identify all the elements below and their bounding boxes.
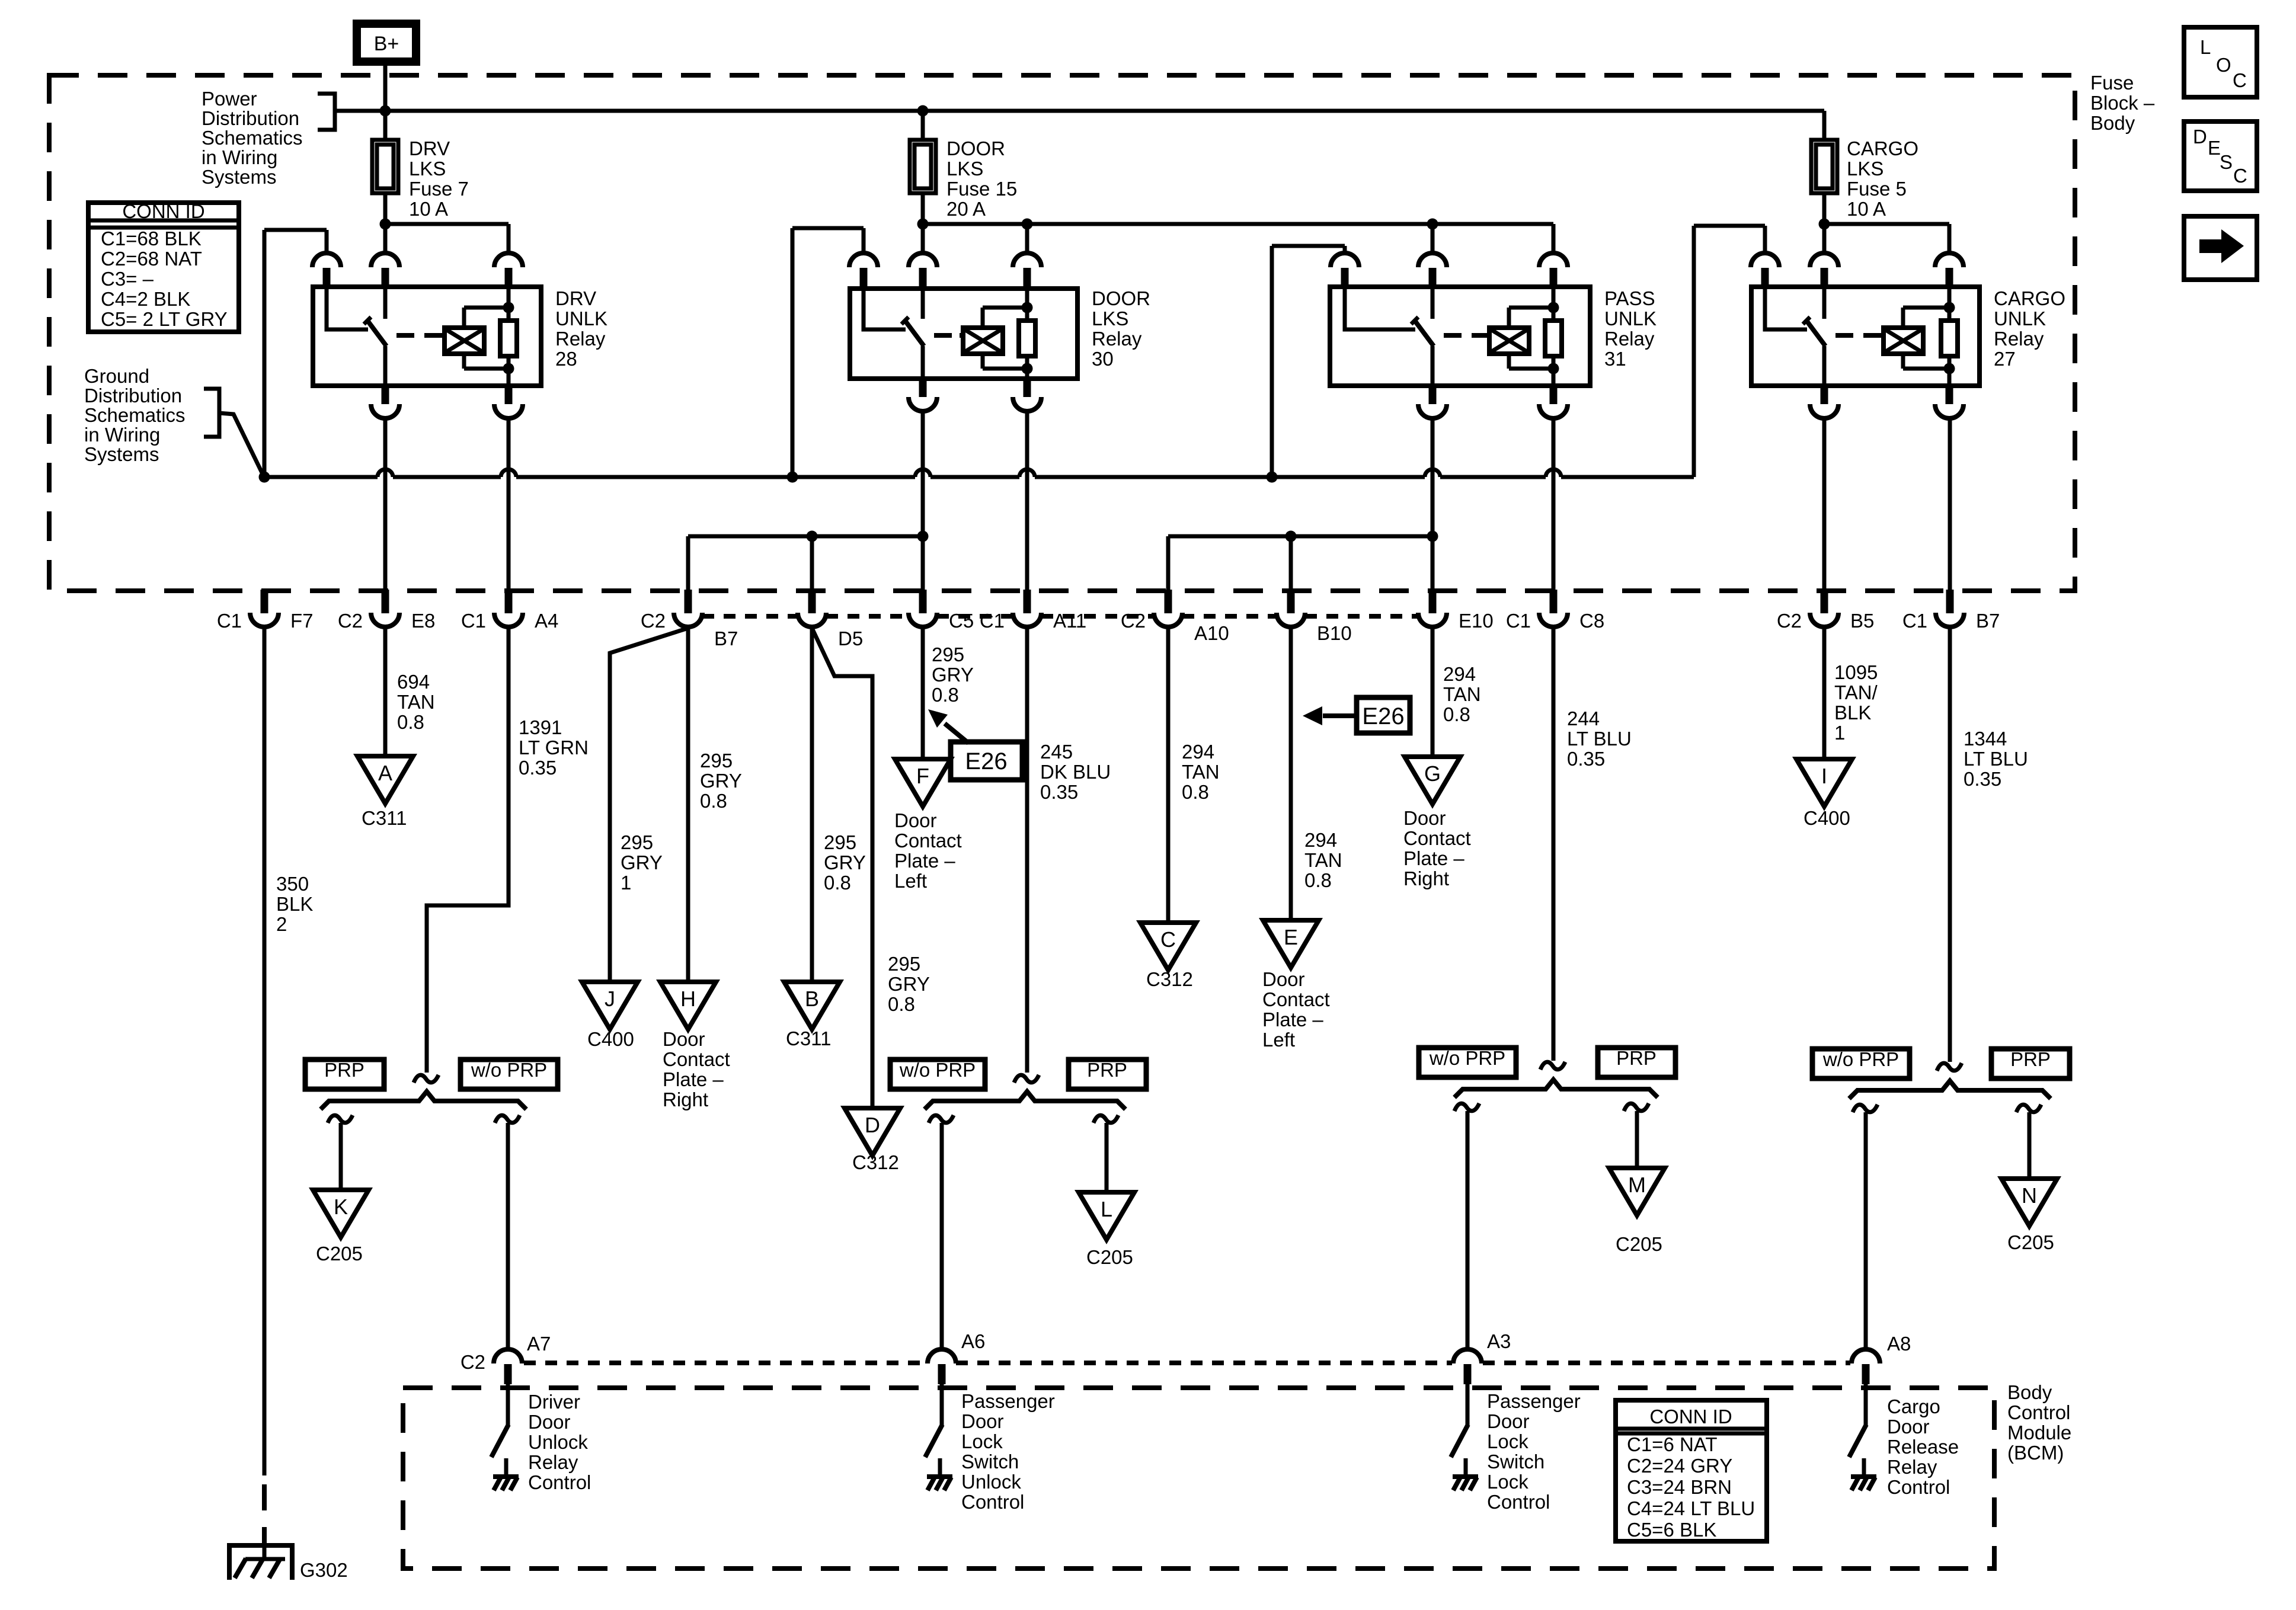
svg-text:C5=6 BLK: C5=6 BLK	[1627, 1519, 1716, 1541]
svg-text:0.8: 0.8	[1443, 703, 1470, 725]
relay K30 (DOOR LKS Relay 30) bottom pin (coil return)	[1024, 377, 1031, 397]
svg-text:Control: Control	[2007, 1401, 2070, 1423]
svg-text:0.35: 0.35	[1567, 748, 1605, 770]
svg-text:Lock: Lock	[1487, 1471, 1528, 1493]
svg-text:Relay: Relay	[555, 328, 606, 350]
wire lock-wire tie right (A10/B10/E10)	[1168, 534, 1432, 539]
connector C2-E8	[382, 590, 389, 613]
node fuse 5 output	[1819, 219, 1830, 230]
connector C2 boundary (short dashed)	[702, 614, 798, 619]
svg-text:Passenger: Passenger	[1487, 1390, 1581, 1412]
svg-text:N: N	[2022, 1183, 2037, 1208]
svg-text:Contact: Contact	[894, 830, 962, 852]
splice option brace (G4 cargo)	[1849, 1081, 2051, 1099]
svg-text:Left: Left	[894, 870, 927, 892]
svg-text:Fuse 15: Fuse 15	[946, 178, 1017, 200]
connector C1-B7 (cargo)	[1946, 590, 1954, 613]
svg-text:0.35: 0.35	[519, 757, 557, 779]
svg-text:PRP: PRP	[324, 1059, 364, 1081]
label w/o PRP (G1 drv)	[461, 1060, 558, 1089]
svg-text:(BCM): (BCM)	[2007, 1442, 2064, 1464]
node tie right / E10 wire	[1427, 531, 1438, 542]
relay K27 (CARGO UNLK Relay 27) box	[1751, 287, 1980, 386]
wire relay 31 coil return down (C1-C8)	[1552, 418, 1556, 590]
relay K27 (CARGO UNLK Relay 27) coil linkage (dashed)	[1835, 333, 1881, 338]
svg-text:C4=24 LT BLU: C4=24 LT BLU	[1627, 1497, 1755, 1519]
svg-text:C: C	[2233, 69, 2247, 91]
relay K30 (DOOR LKS Relay 30) pin 1 (top left)	[849, 253, 878, 267]
splice M	[1609, 1168, 1665, 1215]
node K28 (DRV UNLK Relay 28) coil-top junction	[503, 302, 514, 313]
node tie right / B10	[1285, 531, 1297, 542]
svg-text:Contact: Contact	[1262, 988, 1330, 1010]
svg-text:31: 31	[1604, 348, 1626, 370]
svg-text:Door: Door	[1887, 1416, 1930, 1438]
relay K28 (DRV UNLK Relay 28) coil linkage (dashed)	[396, 333, 442, 338]
svg-text:10 A: 10 A	[1847, 198, 1886, 220]
svg-text:A10: A10	[1194, 622, 1229, 644]
svg-text:M: M	[1628, 1173, 1646, 1197]
fuse block dashed boundary (Fuse Block - Body)	[49, 75, 2075, 591]
node K31 (PASS UNLK Relay 31) coil-bottom junction	[1548, 363, 1559, 375]
svg-text:E26: E26	[965, 748, 1007, 774]
relay K30 (DOOR LKS Relay 30) box	[850, 289, 1077, 379]
svg-text:Ground: Ground	[84, 365, 149, 387]
splice F	[895, 759, 951, 806]
svg-text:1: 1	[621, 872, 631, 894]
wire 295 GRY 0.8 (to B)	[810, 628, 814, 982]
switch cargo door release relay control	[1864, 1384, 1868, 1426]
switch driver door unlock relay control	[506, 1384, 510, 1426]
ground G302	[227, 1543, 295, 1548]
svg-text:Control: Control	[1887, 1476, 1950, 1498]
svg-text:Module: Module	[2007, 1422, 2071, 1443]
relay K31 (PASS UNLK Relay 31) coil linkage (dashed)	[1444, 333, 1486, 338]
svg-text:CONN ID: CONN ID	[122, 200, 204, 222]
svg-text:Left: Left	[1262, 1029, 1295, 1051]
svg-text:Relay: Relay	[528, 1451, 578, 1473]
relay K31 (PASS UNLK Relay 31) pin 1 (top left)	[1331, 253, 1359, 267]
svg-text:Driver: Driver	[528, 1391, 580, 1413]
wire relay 28 coil return down (C1-A4)	[507, 418, 511, 590]
svg-text:245: 245	[1040, 741, 1073, 763]
svg-text:Schematics: Schematics	[84, 404, 186, 426]
svg-text:Door: Door	[663, 1028, 705, 1050]
svg-text:DOOR: DOOR	[946, 137, 1005, 159]
svg-text:C400: C400	[1803, 807, 1850, 829]
svg-text:Lock: Lock	[1487, 1430, 1528, 1452]
svg-text:C400: C400	[587, 1028, 634, 1050]
relay K27 (CARGO UNLK Relay 27) pin 3 (top right)	[1935, 253, 1964, 267]
svg-text:294: 294	[1443, 663, 1476, 685]
wire 245 DK BLU 0.35	[1025, 628, 1029, 1073]
svg-text:GRY: GRY	[621, 852, 663, 873]
svg-text:Right: Right	[663, 1089, 708, 1110]
LOC reference box	[2184, 27, 2257, 97]
svg-text:C2=24 GRY: C2=24 GRY	[1627, 1455, 1732, 1477]
svg-text:PRP: PRP	[2010, 1048, 2051, 1070]
svg-text:C1: C1	[1506, 610, 1531, 632]
svg-text:CARGO: CARGO	[1847, 137, 1918, 159]
splice B	[784, 982, 840, 1029]
wire right branch (G1 drv)	[495, 1115, 520, 1123]
svg-text:C1: C1	[461, 610, 486, 632]
CONN ID table (BCM)	[1616, 1400, 1767, 1541]
relay K28 (DRV UNLK Relay 28) pin 2 (top middle)	[371, 253, 399, 267]
splice option tilde (G2 pass-unlock)	[1014, 1075, 1039, 1083]
connector E10	[1429, 590, 1437, 613]
wire 294 TAN 0.8 (to C)	[1166, 628, 1171, 923]
relay K31 (PASS UNLK Relay 31) pin 3 (top right)	[1539, 253, 1568, 267]
node tie left / C5 wire	[917, 531, 929, 542]
svg-text:Door: Door	[1487, 1410, 1530, 1432]
connector C1-C8	[1550, 590, 1558, 613]
svg-text:0.8: 0.8	[700, 790, 727, 812]
wire relay 27 switch output down (C2-B5)	[1822, 418, 1827, 590]
svg-text:GRY: GRY	[888, 973, 930, 995]
relay K28 (DRV UNLK Relay 28) resistor	[507, 287, 511, 321]
svg-text:E8: E8	[411, 610, 435, 632]
svg-text:A4: A4	[535, 610, 558, 632]
connector C1-A11	[1024, 590, 1031, 613]
svg-text:A6: A6	[961, 1330, 985, 1352]
svg-text:Control: Control	[528, 1471, 591, 1493]
svg-text:C1=68 BLK: C1=68 BLK	[101, 228, 202, 249]
svg-text:C1: C1	[1902, 610, 1927, 632]
splice L	[1079, 1192, 1134, 1240]
connector A6 (BCM)	[928, 1349, 956, 1363]
relay K28 (DRV UNLK Relay 28) bottom pin (switch output)	[382, 385, 389, 404]
svg-text:B7: B7	[714, 628, 738, 649]
wire relay 28 switch output down (C2-E8)	[383, 418, 388, 590]
svg-text:J: J	[605, 987, 615, 1011]
relay K27 (CARGO UNLK Relay 27) pin 1 (top left)	[1751, 253, 1779, 267]
svg-text:694: 694	[397, 671, 430, 693]
svg-text:in Wiring: in Wiring	[202, 146, 277, 168]
svg-text:A11: A11	[1053, 610, 1086, 632]
connector C2-B5	[1821, 590, 1828, 613]
connector D5	[808, 590, 816, 613]
svg-text:Switch: Switch	[961, 1451, 1019, 1473]
svg-text:0.8: 0.8	[888, 993, 915, 1015]
switch passenger door lock switch unlock control	[940, 1384, 944, 1426]
svg-text:Door: Door	[1262, 968, 1305, 990]
svg-text:C311: C311	[786, 1028, 831, 1049]
relay K28 (DRV UNLK Relay 28) box	[313, 287, 541, 386]
label w/o PRP (G2 pass-unlock)	[890, 1060, 985, 1089]
splice G	[1405, 757, 1460, 804]
svg-text:C3=24 BRN: C3=24 BRN	[1627, 1476, 1732, 1498]
splice A	[357, 756, 413, 804]
fuse DRV LKS Fuse 7 10A	[383, 111, 388, 140]
svg-text:Relay: Relay	[1994, 328, 2044, 350]
relay K30 (DOOR LKS Relay 30) pin 2 (top middle)	[909, 253, 937, 267]
svg-text:C2=68 NAT: C2=68 NAT	[101, 248, 202, 270]
svg-text:0.8: 0.8	[932, 684, 959, 706]
svg-text:K: K	[334, 1195, 348, 1219]
connector C5	[919, 590, 927, 613]
svg-text:Fuse 7: Fuse 7	[409, 178, 469, 200]
wire relay 30 coil return down (C1-A11)	[1025, 411, 1029, 590]
svg-text:O: O	[2216, 54, 2231, 76]
wire 295 GRY 0.8 (to D)	[812, 628, 872, 1108]
BCM dashed box (Body Control Module)	[403, 1388, 1994, 1569]
svg-text:C311: C311	[362, 807, 407, 829]
svg-text:A: A	[378, 761, 392, 785]
svg-text:C3= –: C3= –	[101, 268, 154, 290]
svg-text:in Wiring: in Wiring	[84, 424, 160, 446]
wire 295 GRY 1 (to J)	[610, 628, 688, 982]
node ground bus / relay 30 feeder	[787, 472, 798, 483]
node tie left / D5	[807, 531, 818, 542]
svg-text:F7: F7	[290, 610, 314, 632]
wire relay 28 pin1 feeder	[325, 230, 329, 253]
svg-text:Systems: Systems	[84, 443, 159, 465]
bracket ground distribution	[204, 389, 219, 437]
splice H	[660, 982, 716, 1029]
node K30 (DOOR LKS Relay 30) coil-bottom junction	[1022, 363, 1033, 375]
wire relay 30 pin1 feeder	[862, 228, 866, 253]
svg-text:C312: C312	[1146, 968, 1193, 990]
svg-text:DOOR: DOOR	[1092, 287, 1150, 309]
svg-text:E10: E10	[1459, 610, 1494, 632]
wire left branch (G4 cargo)	[1853, 1105, 1878, 1112]
wire 244 LT BLU 0.35	[1552, 628, 1556, 1061]
relay K28 (DRV UNLK Relay 28) switch	[327, 287, 368, 329]
splice J	[582, 982, 638, 1029]
wire right branch (G3 pass-lock)	[1624, 1103, 1649, 1111]
splice option tilde (G1 drv)	[414, 1075, 439, 1083]
svg-text:C2: C2	[1777, 610, 1802, 632]
svg-text:Unlock: Unlock	[961, 1471, 1021, 1493]
svg-text:CARGO: CARGO	[1994, 287, 2065, 309]
wire left branch (G3 pass-lock)	[1454, 1103, 1479, 1111]
svg-text:295: 295	[824, 831, 856, 853]
wire fuse 15 branch to relays 30/31	[923, 222, 1553, 226]
wire 694 TAN 0.8	[383, 628, 388, 756]
svg-text:w/o PRP: w/o PRP	[1429, 1047, 1505, 1069]
relay K30 (DOOR LKS Relay 30) pin 3 (top right)	[1013, 253, 1041, 267]
svg-text:G302: G302	[300, 1559, 348, 1581]
connector C1-F7	[261, 590, 268, 613]
svg-text:TAN: TAN	[1304, 849, 1342, 871]
node K28 (DRV UNLK Relay 28) coil-bottom junction	[503, 363, 514, 375]
fuse CARGO LKS Fuse 5 10A	[1822, 138, 1827, 142]
splice E	[1263, 920, 1319, 968]
svg-text:C1: C1	[217, 610, 242, 632]
svg-text:CONN ID: CONN ID	[1649, 1406, 1732, 1427]
wire 295 GRY 0.8 (to F)	[921, 628, 925, 759]
svg-text:1391: 1391	[519, 716, 562, 738]
svg-text:Relay: Relay	[1092, 328, 1142, 350]
node ground bus / relay 31 feeder	[1267, 472, 1278, 483]
callout E26 (right)	[1357, 697, 1410, 733]
svg-text:B+: B+	[374, 33, 399, 55]
svg-text:B10: B10	[1317, 622, 1352, 644]
wire relay 30 switch output down (C5)	[921, 411, 925, 590]
splice N	[2001, 1179, 2057, 1226]
svg-text:Block –: Block –	[2090, 92, 2155, 114]
svg-text:244: 244	[1567, 708, 1600, 729]
svg-text:Door: Door	[1403, 807, 1446, 829]
svg-text:S: S	[2220, 151, 2233, 173]
relay K31 (PASS UNLK Relay 31) coil	[1489, 328, 1529, 354]
svg-text:C1: C1	[980, 610, 1005, 632]
svg-text:0.8: 0.8	[397, 711, 424, 733]
node K27 (CARGO UNLK Relay 27) coil-bottom junction	[1944, 363, 1955, 375]
svg-text:B5: B5	[1850, 610, 1874, 632]
arrow reference box	[2184, 216, 2257, 280]
svg-text:Body: Body	[2090, 112, 2135, 134]
svg-text:LKS: LKS	[1847, 158, 1884, 180]
svg-text:LKS: LKS	[1092, 308, 1128, 329]
svg-text:G: G	[1424, 761, 1441, 786]
svg-text:Distribution: Distribution	[202, 107, 299, 129]
B+ battery feed box	[357, 24, 416, 62]
svg-text:Release: Release	[1887, 1436, 1959, 1458]
svg-text:Lock: Lock	[961, 1430, 1003, 1452]
svg-text:A8: A8	[1887, 1333, 1911, 1355]
svg-text:Plate –: Plate –	[663, 1068, 724, 1090]
svg-text:TAN: TAN	[1443, 683, 1481, 705]
wire fuse 5 branch to relay 27 pin3	[1824, 222, 1949, 226]
node fuse 15 output	[917, 219, 929, 230]
node bus / fuse 15	[917, 105, 929, 117]
svg-text:0.8: 0.8	[1182, 781, 1209, 803]
relay K28 (DRV UNLK Relay 28) bottom pin (coil return)	[505, 385, 513, 404]
svg-text:1: 1	[1834, 722, 1845, 744]
BCM connector line (short dashed)	[524, 1361, 925, 1365]
svg-text:GRY: GRY	[824, 852, 866, 873]
connector A8 (BCM)	[1851, 1349, 1880, 1363]
wire left branch (G1 drv)	[328, 1115, 353, 1123]
label PRP (G1 drv)	[305, 1060, 384, 1089]
svg-text:C2: C2	[1121, 610, 1146, 632]
svg-text:E26: E26	[1362, 703, 1404, 729]
connector C2-A10	[1165, 590, 1172, 613]
svg-text:30: 30	[1092, 348, 1114, 370]
svg-text:Contact: Contact	[1403, 827, 1471, 849]
svg-text:0.8: 0.8	[824, 872, 851, 894]
node fuse 15 branch / relay 30 pin3	[1022, 219, 1033, 230]
svg-text:UNLK: UNLK	[555, 308, 607, 329]
label PRP (G4 cargo)	[1991, 1049, 2070, 1078]
relay K31 (PASS UNLK Relay 31) box	[1330, 287, 1590, 386]
ground distribution bus wire	[264, 475, 378, 479]
svg-text:TAN/: TAN/	[1834, 681, 1878, 703]
svg-text:C312: C312	[852, 1151, 899, 1173]
wire 1391 LT GRN 0.35	[427, 628, 509, 1073]
svg-text:294: 294	[1304, 829, 1337, 851]
bracket power distribution	[318, 94, 335, 130]
svg-text:Plate –: Plate –	[894, 850, 955, 872]
relay K27 (CARGO UNLK Relay 27) pin 2 (top middle)	[1810, 253, 1838, 267]
svg-text:0.8: 0.8	[1304, 869, 1332, 891]
wire ground bracket to ground bus	[219, 413, 264, 478]
wire left branch (G2 pass-unlock)	[929, 1115, 954, 1123]
wire 294 TAN 0.8 (to E)	[1289, 628, 1293, 920]
node K31 (PASS UNLK Relay 31) coil-top junction	[1548, 302, 1559, 313]
svg-text:295: 295	[621, 831, 653, 853]
svg-text:I: I	[1821, 764, 1827, 788]
svg-text:UNLK: UNLK	[1994, 308, 2046, 329]
node K30 (DOOR LKS Relay 30) coil-top junction	[1022, 302, 1033, 313]
svg-text:GRY: GRY	[700, 770, 742, 792]
svg-text:B7: B7	[1976, 610, 2000, 632]
svg-text:Fuse 5: Fuse 5	[1847, 178, 1907, 200]
svg-text:Distribution: Distribution	[84, 385, 182, 406]
splice D	[845, 1108, 900, 1156]
svg-text:C5: C5	[949, 610, 974, 632]
svg-text:D: D	[865, 1113, 880, 1137]
svg-text:LT BLU: LT BLU	[1567, 728, 1632, 750]
relay K27 (CARGO UNLK Relay 27) resistor	[1948, 287, 1952, 321]
wire relay 31 pin1 feeder	[1343, 246, 1347, 253]
relay K27 (CARGO UNLK Relay 27) switch	[1765, 287, 1807, 329]
svg-text:Door: Door	[894, 809, 937, 831]
relay K27 (CARGO UNLK Relay 27) bottom pin (coil return)	[1946, 385, 1953, 404]
svg-text:Schematics: Schematics	[202, 127, 303, 149]
svg-text:UNLK: UNLK	[1604, 308, 1657, 329]
svg-text:A7: A7	[527, 1333, 551, 1355]
svg-text:D5: D5	[838, 628, 863, 649]
svg-text:Power: Power	[202, 88, 257, 110]
relay K31 (PASS UNLK Relay 31) resistor	[1552, 287, 1556, 321]
splice K	[313, 1190, 369, 1237]
svg-text:F: F	[916, 764, 929, 788]
wire 1095 TAN/BLK 1	[1822, 628, 1827, 759]
svg-text:C2: C2	[338, 610, 363, 632]
splice option brace (G2 pass-unlock)	[925, 1092, 1125, 1109]
svg-text:C2: C2	[461, 1351, 485, 1373]
wire relay 27 pin1 feeder	[1763, 226, 1767, 253]
svg-text:20 A: 20 A	[946, 198, 986, 220]
label PRP (G3 pass-lock)	[1598, 1048, 1675, 1077]
svg-text:LT BLU: LT BLU	[1964, 748, 2028, 770]
wire right branch (G4 cargo)	[2016, 1105, 2041, 1112]
svg-text:TAN: TAN	[397, 691, 435, 713]
svg-text:Relay: Relay	[1887, 1456, 1937, 1478]
splice option tilde (G4 cargo)	[1937, 1063, 1962, 1071]
fuse DOOR LKS Fuse 15 20A	[921, 111, 925, 140]
svg-text:Cargo: Cargo	[1887, 1395, 1940, 1417]
svg-text:C5= 2 LT GRY: C5= 2 LT GRY	[101, 308, 228, 330]
power distribution bus wire	[335, 109, 1824, 113]
wire relay 31 switch output down (E10)	[1431, 418, 1435, 590]
relay K28 (DRV UNLK Relay 28) pin 1 (top left)	[312, 253, 341, 267]
svg-text:LT GRN: LT GRN	[519, 737, 589, 758]
switch passenger door lock switch lock control	[1466, 1384, 1470, 1426]
relay K31 (PASS UNLK Relay 31) switch	[1345, 287, 1415, 329]
svg-text:350: 350	[276, 873, 309, 895]
wire right branch (G2 pass-unlock)	[1093, 1115, 1118, 1123]
svg-text:0.35: 0.35	[1040, 781, 1078, 803]
connector C2-B7	[685, 590, 692, 613]
svg-text:Passenger: Passenger	[961, 1390, 1055, 1412]
svg-text:B: B	[805, 987, 819, 1011]
node fuse 7 output	[380, 219, 391, 230]
connector A3 (BCM)	[1453, 1349, 1482, 1363]
connector B10	[1287, 590, 1295, 613]
svg-text:C4=2 BLK: C4=2 BLK	[101, 288, 190, 310]
svg-text:TAN: TAN	[1182, 761, 1220, 783]
wire fuse 7 branch to relay 28 pin3	[385, 222, 509, 226]
svg-text:A3: A3	[1487, 1330, 1511, 1352]
wire 294 TAN 0.8 (to G)	[1431, 628, 1435, 757]
svg-text:Door: Door	[961, 1410, 1004, 1432]
svg-text:C205: C205	[1086, 1246, 1133, 1268]
svg-text:LKS: LKS	[409, 158, 446, 180]
